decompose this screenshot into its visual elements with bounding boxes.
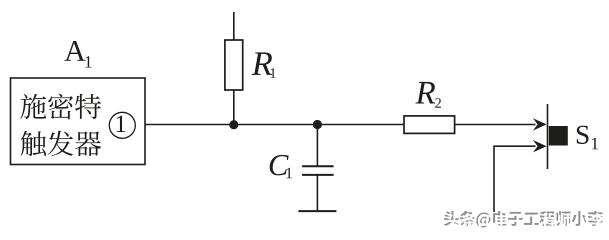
label R1 [252, 52, 276, 77]
label A1 [64, 41, 91, 67]
text 施密特 [20, 94, 101, 120]
ground [298, 210, 336, 212]
resistor R1 [225, 40, 243, 125]
capacitor C1 [302, 125, 334, 212]
gate number circle 1 [109, 112, 135, 138]
node: junction at R1 [229, 120, 238, 129]
watermark 头条@电子工程师小李 [444, 211, 605, 230]
schmitt trigger A1 box [11, 78, 146, 165]
label C1 [270, 155, 292, 178]
label S1 [577, 126, 598, 150]
resistor R2 [404, 116, 455, 133]
text 触发器 [21, 131, 102, 157]
wire: A1 output to R2 [145, 124, 404, 126]
node: junction at C1 [313, 120, 322, 129]
touch plate S1 [548, 104, 568, 169]
label R2 [415, 82, 441, 108]
wire: lower arrow to S1 [494, 140, 547, 212]
wire: R2 output to S1 (arrow) [455, 118, 547, 130]
wire: R1 top lead [233, 12, 235, 40]
